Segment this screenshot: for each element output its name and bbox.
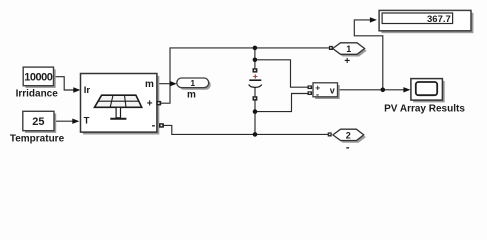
svg-text:+: +: [147, 98, 153, 109]
svg-text:T: T: [84, 116, 90, 127]
svg-text:2: 2: [346, 130, 351, 140]
svg-text:Temprature: Temprature: [10, 133, 65, 144]
svg-text:PV Array Results: PV Array Results: [384, 103, 465, 114]
svg-text:10000: 10000: [24, 72, 52, 84]
svg-text:367.7: 367.7: [427, 14, 451, 25]
svg-text:v: v: [330, 85, 335, 95]
svg-text:25: 25: [32, 116, 44, 128]
svg-text:Ir: Ir: [84, 85, 91, 96]
svg-text:m: m: [145, 79, 154, 90]
svg-text:1: 1: [190, 78, 195, 88]
svg-text:-: -: [316, 89, 319, 100]
svg-text:-: -: [152, 119, 156, 131]
svg-text:1: 1: [346, 44, 351, 54]
svg-text:m: m: [187, 90, 196, 101]
svg-text:-: -: [346, 141, 350, 153]
svg-text:Irridance: Irridance: [16, 88, 59, 99]
svg-text:+: +: [344, 56, 350, 67]
